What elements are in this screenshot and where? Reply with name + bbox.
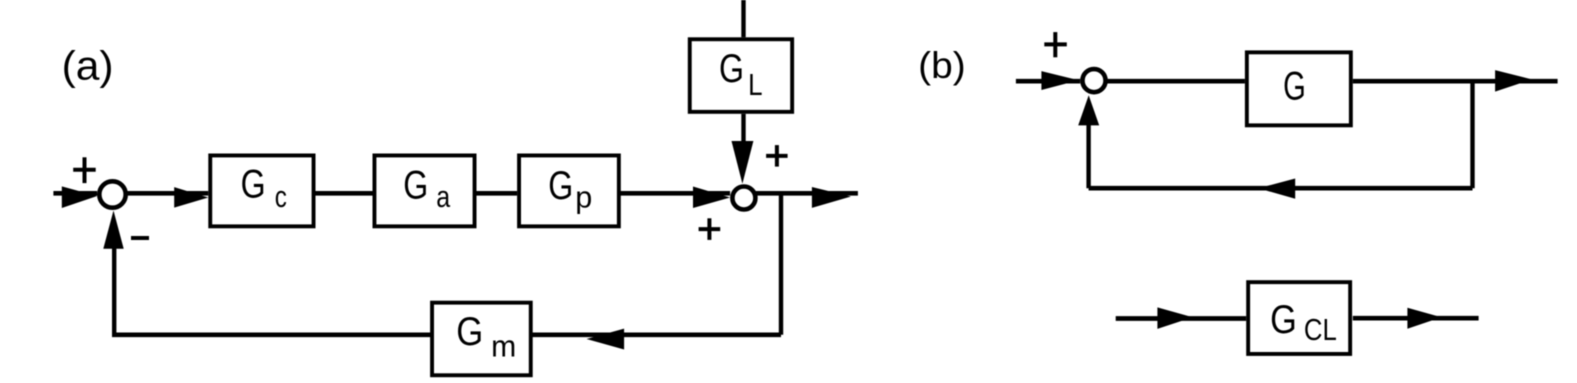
- arrowhead input GCL: [1157, 307, 1192, 329]
- label Gm: [456, 310, 516, 363]
- wire Gp to summer S2: [619, 191, 730, 196]
- plus sign below-left of S2: [699, 218, 721, 240]
- block Gc: [210, 155, 313, 226]
- arrowhead feedback into S1 bottom: [103, 211, 123, 249]
- wire feedback vertical to S1: [112, 248, 116, 335]
- arrowhead output GCL: [1407, 308, 1441, 329]
- wire takeoff vertical of (b): [1470, 79, 1474, 188]
- arrowhead feedback into Gm: [587, 329, 625, 350]
- svg-text:(b): (b): [918, 44, 966, 86]
- label Gc: [241, 163, 287, 214]
- wire output of GCL: [1353, 316, 1479, 321]
- wire feedback vertical to S3: [1086, 123, 1090, 188]
- wire feedback horizontal of (a): [112, 332, 781, 337]
- wire GL top entry: [741, 0, 745, 37]
- wire input to summer S1: [53, 191, 97, 196]
- wire input to S3: [1016, 79, 1080, 84]
- svg-text:G: G: [403, 163, 428, 207]
- block GL: [690, 39, 792, 112]
- svg-text:a: a: [436, 179, 451, 214]
- svg-text:L: L: [748, 67, 762, 102]
- svg-text:p: p: [575, 180, 592, 215]
- wire takeoff vertical of (a): [779, 193, 783, 334]
- plus sign above-right of S2: [766, 145, 788, 167]
- block G: [1247, 52, 1351, 125]
- arrowhead input S1: [62, 186, 97, 208]
- svg-text:G: G: [719, 47, 744, 91]
- arrowhead output of (a): [812, 187, 851, 208]
- svg-text:G: G: [456, 310, 483, 354]
- block GCL: [1248, 282, 1350, 354]
- svg-text:CL: CL: [1304, 312, 1337, 347]
- svg-text:G: G: [548, 164, 573, 208]
- arrowhead GL into S2 top: [732, 141, 754, 184]
- plus sign at S1: [73, 157, 96, 183]
- minus sign at S1: [131, 236, 149, 240]
- plus sign at S3: [1044, 32, 1067, 57]
- wire Gc to Ga: [316, 191, 373, 196]
- wire feedback horizontal of (b): [1089, 186, 1473, 191]
- label Ga: [403, 163, 451, 214]
- wire Ga to Gp: [477, 191, 518, 196]
- summing junction S1: [99, 181, 125, 207]
- summing junction S2: [732, 187, 755, 210]
- label Gp: [548, 164, 592, 215]
- arrowhead into S2: [693, 187, 730, 209]
- svg-text:G: G: [1270, 298, 1297, 342]
- summing junction S3: [1082, 69, 1105, 92]
- wire S3 to G: [1107, 79, 1245, 84]
- svg-text:G: G: [241, 163, 266, 207]
- wire GL to S2: [741, 114, 745, 143]
- block Gp: [519, 155, 619, 226]
- label GCL: [1270, 298, 1337, 347]
- svg-text:c: c: [275, 179, 287, 214]
- wire input to GCL: [1116, 316, 1247, 321]
- label GL: [719, 47, 763, 102]
- wire S1 to Gc: [126, 191, 208, 196]
- svg-text:m: m: [491, 329, 516, 364]
- arrowhead feedback into S3 bottom: [1078, 95, 1099, 125]
- svg-text:(a): (a): [62, 43, 114, 89]
- svg-text:G: G: [1283, 65, 1306, 109]
- arrowhead feedback of (b): [1258, 179, 1295, 199]
- block Ga: [374, 155, 474, 226]
- wire S2 to output: [756, 191, 858, 196]
- arrowhead input S3: [1041, 71, 1078, 90]
- arrowhead output of (b): [1495, 70, 1532, 92]
- wire G to output of (b): [1353, 79, 1558, 84]
- arrowhead into Gc: [174, 187, 208, 208]
- block Gm: [432, 303, 531, 376]
